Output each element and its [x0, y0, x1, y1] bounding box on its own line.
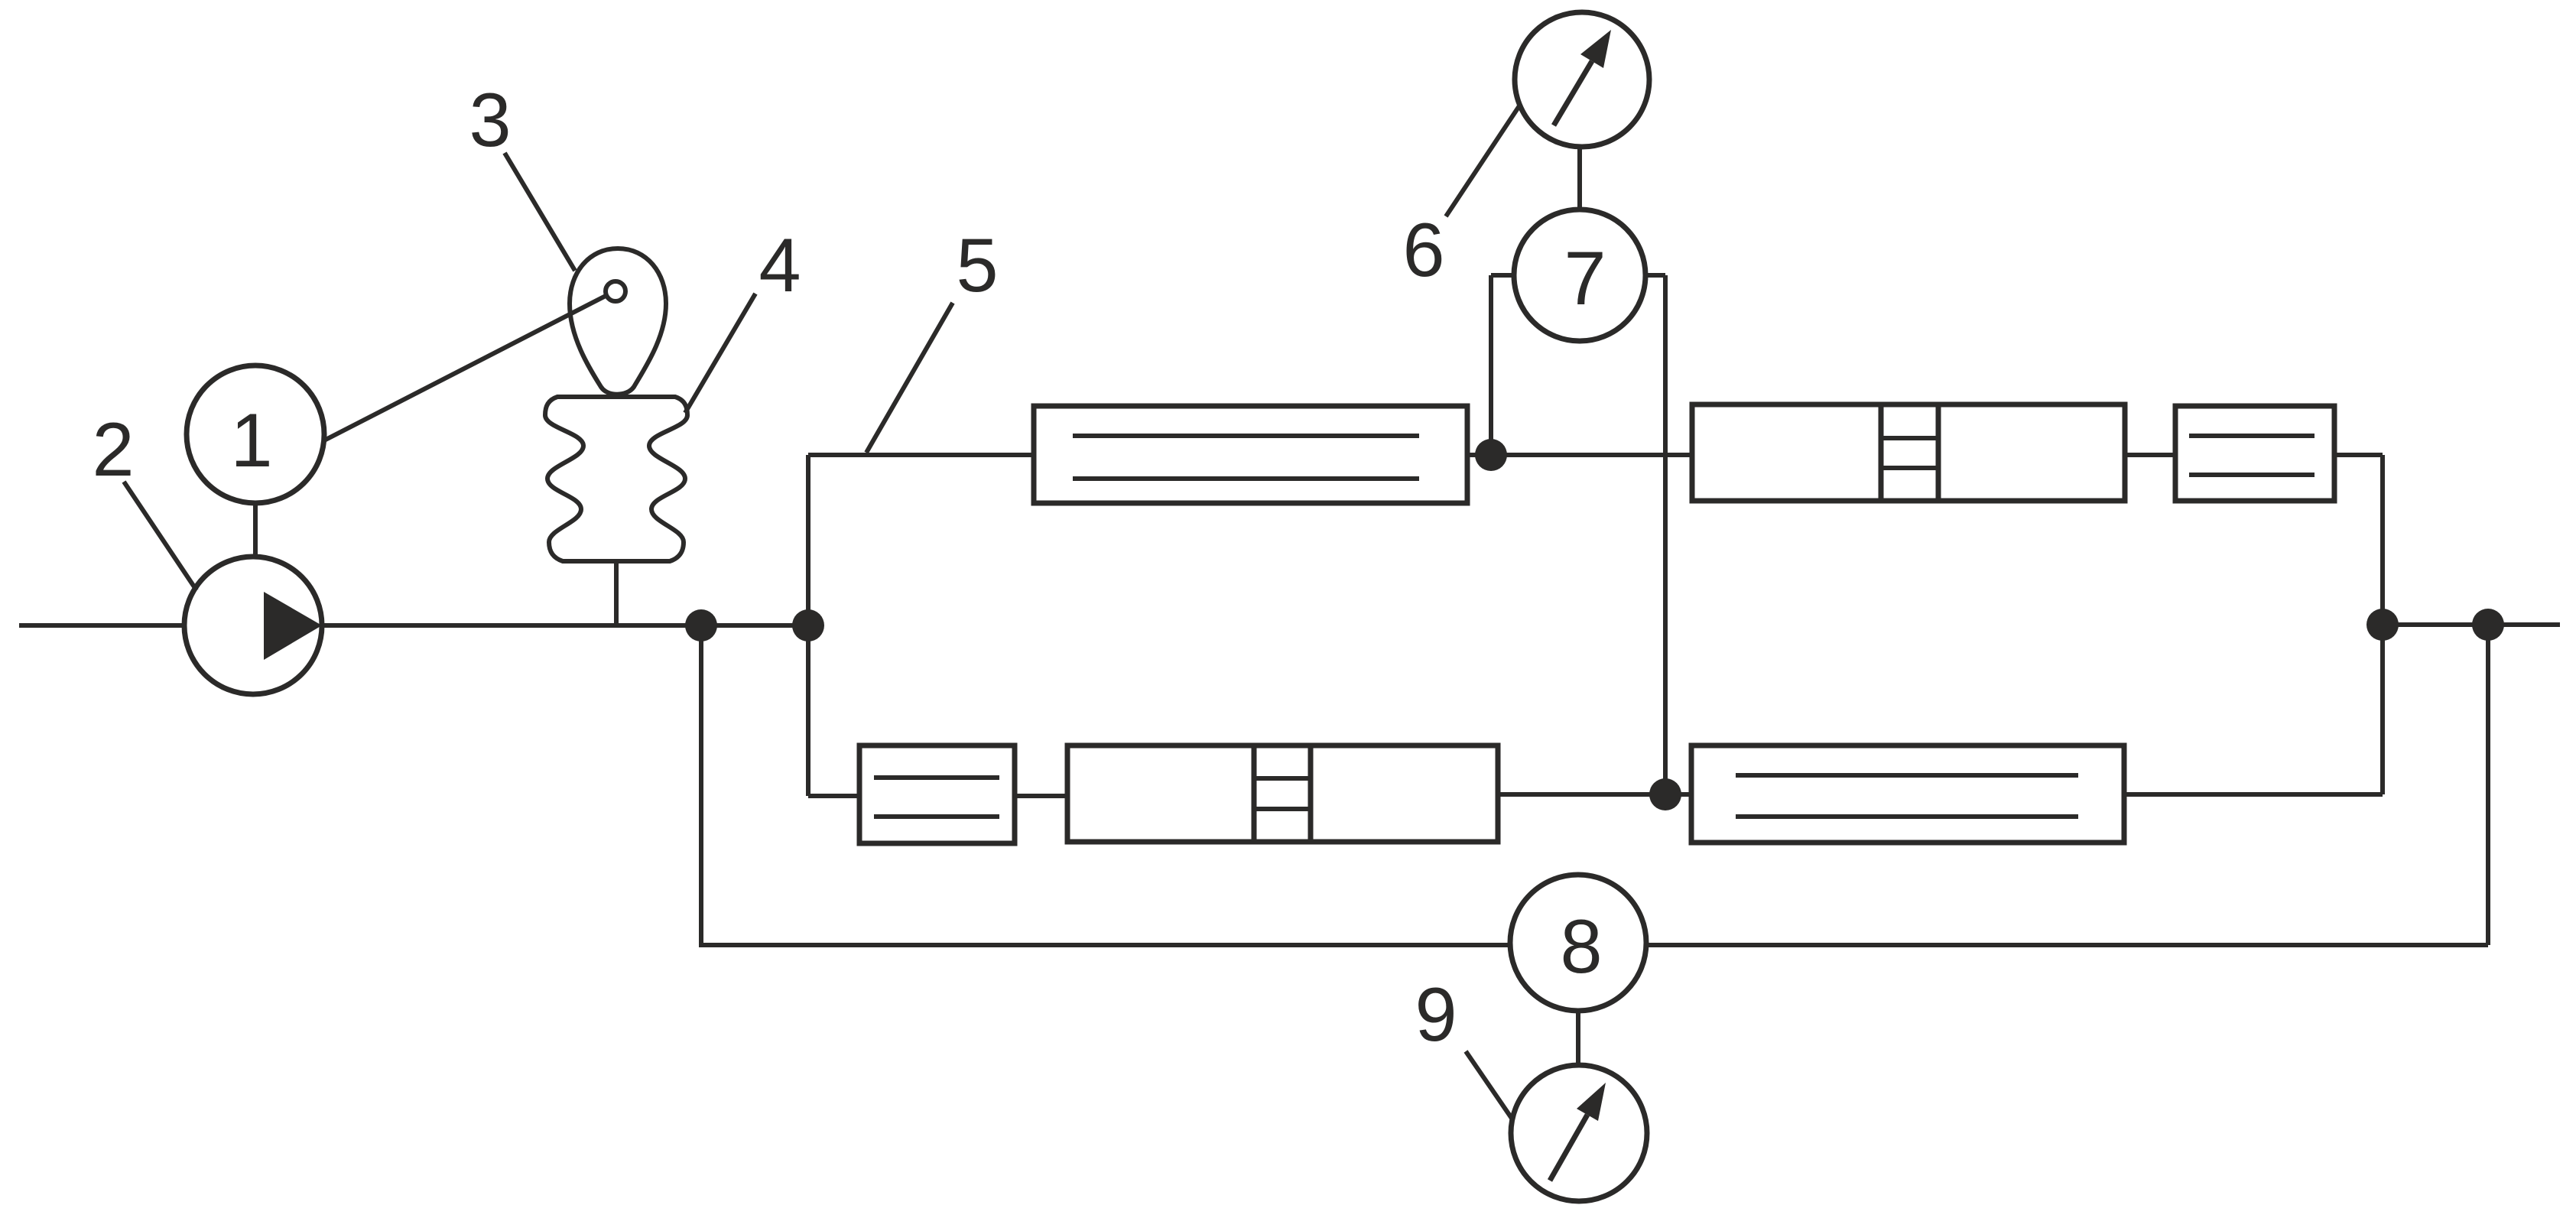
svg-text:8: 8	[1560, 904, 1602, 989]
svg-text:4: 4	[759, 222, 801, 307]
svg-text:2: 2	[92, 407, 134, 492]
svg-text:3: 3	[469, 77, 511, 162]
svg-text:7: 7	[1564, 235, 1606, 320]
svg-text:1: 1	[230, 398, 272, 482]
svg-text:5: 5	[956, 222, 998, 307]
svg-text:9: 9	[1415, 972, 1457, 1057]
svg-text:6: 6	[1402, 207, 1444, 292]
